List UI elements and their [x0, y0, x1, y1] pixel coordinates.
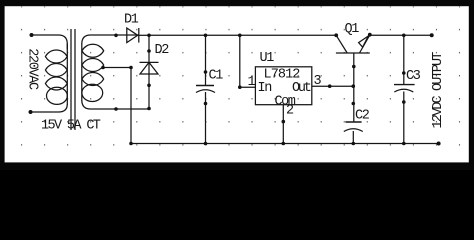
transformer T1 primary top lead wire — [31, 35, 67, 50]
node ground terminal — [437, 142, 441, 146]
label L7812 — [264, 68, 301, 83]
node secondary top joint — [114, 34, 118, 38]
transformer core — [71, 29, 75, 130]
junction and terminal nodes — [29, 33, 441, 146]
node ground corner — [129, 142, 133, 146]
node secondary bottom joint — [114, 107, 118, 111]
node center tap — [101, 66, 105, 70]
node common ground — [282, 142, 286, 146]
node output terminal — [430, 33, 434, 37]
label C1 — [209, 69, 224, 84]
wire regulator output pin 3 — [312, 85, 353, 87]
label C3 — [406, 69, 421, 84]
label Com — [275, 94, 296, 109]
transformer T1 primary winding — [45, 44, 67, 105]
node center tap corner — [129, 66, 133, 70]
label D2 — [155, 43, 170, 58]
node Q1 base joint — [352, 65, 356, 69]
wire center tap — [103, 68, 131, 144]
node C1 rail tap — [204, 34, 208, 38]
screen background — [0, 0, 474, 170]
node Q1 collector rail — [334, 33, 338, 37]
node common pin joint — [282, 120, 286, 124]
node D2 anode to bottom wire — [147, 107, 151, 111]
svg-text:15V 5A CT: 15V 5A CT — [41, 118, 101, 133]
wire D2 cathode stub — [148, 35, 150, 62]
transformer T1 primary bottom lead wire — [31, 104, 67, 112]
node primary top terminal — [30, 33, 34, 37]
node primary bottom terminal — [29, 110, 33, 114]
svg-text:C3: C3 — [406, 69, 421, 84]
svg-text:D1: D1 — [124, 13, 139, 28]
label Out — [292, 81, 311, 96]
label 220VAC — [25, 48, 40, 90]
label pin 2 — [286, 104, 294, 119]
wire D2 anode down — [148, 62, 150, 108]
wire raw DC rail left — [149, 34, 336, 36]
wire Q1 base to C2 — [353, 53, 355, 122]
node output wire joint — [328, 84, 332, 88]
wire secondary top to D1 anode — [82, 35, 139, 44]
node D2 anode mid — [147, 84, 151, 88]
node C3 rail tap — [402, 34, 406, 38]
grid dots — [21, 6, 460, 145]
diode D1 — [127, 28, 139, 43]
wire regulator common pin 2 — [282, 105, 284, 144]
diode D2 — [140, 62, 159, 74]
wire output rail right — [370, 34, 432, 36]
node regulator input rail tap — [238, 34, 242, 38]
svg-text:C1: C1 — [209, 69, 224, 84]
node Q1 base output junction — [352, 84, 356, 88]
svg-text:Q1: Q1 — [345, 22, 360, 37]
svg-text:220VAC: 220VAC — [25, 48, 40, 90]
node C3 bottom pin — [402, 100, 406, 104]
node C2 top pin — [352, 102, 356, 106]
svg-text:Out: Out — [292, 81, 311, 96]
label 12VDC OUTPUT — [431, 52, 446, 129]
label Q1 — [345, 22, 360, 37]
wire D1 cathode to node — [139, 34, 149, 36]
ground rail wire — [131, 143, 439, 145]
svg-text:U1: U1 — [260, 51, 275, 66]
label U1 — [260, 51, 275, 66]
wire regulator input branch — [240, 35, 256, 87]
label In — [258, 81, 272, 96]
label 15V 5A CT — [41, 118, 101, 133]
wire secondary bottom — [82, 100, 149, 109]
node D2 cathode stub — [147, 49, 151, 53]
node C3 ground — [402, 142, 406, 146]
capacitor C1 — [196, 35, 215, 143]
transistor Q1 — [336, 35, 370, 53]
label pin 3 — [314, 74, 322, 89]
node C1 ground — [204, 142, 208, 146]
node C2 ground — [352, 142, 356, 146]
transformer T1 secondary winding — [82, 44, 104, 102]
label D1 — [124, 13, 139, 28]
node C1 bottom pin — [204, 102, 208, 106]
node Q1 emitter rail — [368, 33, 372, 37]
node C1 top pin — [204, 70, 208, 74]
voltage regulator U1 L7812 box — [255, 67, 311, 105]
node C3 top pin — [402, 71, 406, 75]
capacitor C3 — [394, 35, 415, 143]
svg-text:C2: C2 — [355, 109, 370, 124]
label pin 1 — [248, 75, 256, 90]
capacitor C2 — [344, 122, 363, 144]
svg-text:12VDC OUTPUT: 12VDC OUTPUT — [431, 52, 446, 129]
label C2 — [355, 109, 370, 124]
svg-text:D2: D2 — [155, 43, 170, 58]
svg-text:In: In — [258, 81, 272, 96]
node regulator input corner — [238, 85, 242, 89]
node D1 D2 cathode junction — [147, 34, 151, 38]
